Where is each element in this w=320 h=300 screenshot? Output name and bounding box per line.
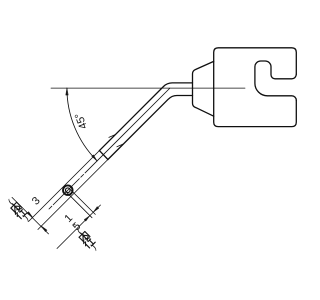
pipe bottom outline bbox=[108, 96, 193, 160]
dimension line D15 for value 1.5 bbox=[57, 205, 101, 249]
label (naikei) for 3 bbox=[6, 198, 30, 222]
collar between pipe and body bbox=[193, 61, 214, 116]
extension line E1 (outer tangent, upper-left) with barb arrow bbox=[29, 135, 116, 222]
pipe axis centerline (45deg) with breaks bbox=[49, 88, 170, 209]
horizontal reference centerline bbox=[51, 87, 245, 89]
45deg dimension arc bbox=[67, 88, 97, 161]
arc arrow bottom bbox=[92, 155, 97, 161]
label 1.5 (naikei) bbox=[62, 212, 98, 251]
bayonet J-slot bbox=[255, 61, 296, 100]
extension lines E3/E4 for 1.5 (inner circle tangents, down-right) bbox=[70, 189, 96, 215]
end view inner circle bbox=[66, 188, 71, 193]
nozzle body outline bbox=[214, 48, 297, 127]
extension line E2 (outer tangent, lower-right) with barb arrow bbox=[38, 144, 124, 230]
D15 arrows bbox=[93, 207, 99, 213]
pipe tip face bbox=[99, 151, 108, 160]
end view outer circle bbox=[63, 185, 73, 195]
pipe top outline bbox=[99, 83, 192, 151]
D3 arrows (outside, pointing inward) bbox=[27, 212, 33, 218]
arc arrow top bbox=[66, 88, 68, 95]
dimension line D3 for value 3 bbox=[12, 197, 49, 234]
